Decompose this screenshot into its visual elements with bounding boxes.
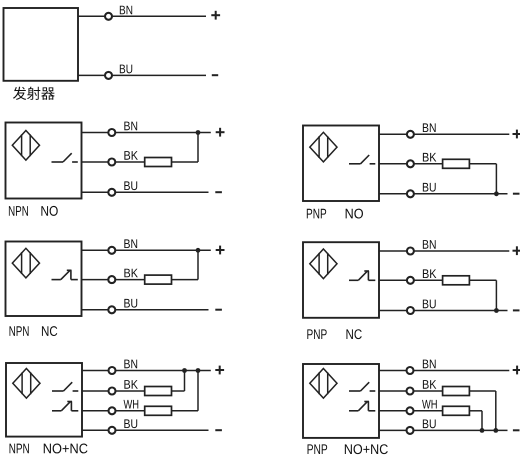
NC contact NPN NO+NC WH [52, 401, 78, 410]
plus terminal (emitter) [211, 11, 220, 20]
label NO (PNP NO) [346, 209, 363, 219]
label NO+NC (PNP NO+NC) [345, 444, 388, 454]
NC contact PNP NC BK [349, 271, 375, 280]
NO contact NPN NO+NC BK [52, 382, 78, 391]
terminal BK (PNP NO) [407, 160, 414, 167]
terminal WH (PNP NO+NC) [407, 407, 414, 414]
wire BK (NPN NC) load to junction [172, 279, 199, 281]
sensor box PNP NO+NC [303, 364, 379, 438]
wire WH (PNP NO+NC) load to junction [469, 410, 482, 412]
terminal BN (PNP NO) [407, 131, 414, 138]
minus terminal (NPN NC) [215, 309, 222, 311]
wire junction-vertical WH-BU (PNP NO+NC) [481, 411, 483, 431]
wire junction-vertical BN-BK (NPN NO+NC) [184, 371, 186, 392]
wire BN (PNP NO) [379, 133, 509, 135]
label NPN (NPN NO) [9, 206, 28, 216]
label BN (NPN NO+NC) [124, 360, 137, 369]
wire BK (PNP NO+NC) load to junction [469, 390, 495, 392]
wire BK (NPN NO+NC) to load [82, 390, 145, 392]
terminal BN (NPN NO) [108, 129, 115, 136]
label NPN (NPN NC) [10, 326, 29, 336]
plus terminal (PNP NO) [513, 130, 520, 139]
wire WH (PNP NO+NC) to load [379, 410, 443, 412]
label BK (PNP NO) [423, 153, 436, 162]
label 发射器 (emitter) [13, 87, 55, 100]
load resistor (PNP NO+NC WH) [443, 406, 470, 415]
wire BK (PNP NO) load to junction [469, 163, 496, 165]
wire BN (emitter) to + [78, 15, 206, 17]
terminal BK (PNP NC) [407, 277, 414, 284]
label NC (PNP NC) [346, 329, 361, 339]
load resistor (NPN NO BK) [145, 158, 172, 167]
terminal BK (NPN NO) [108, 159, 115, 166]
wire BN (NPN NO) [82, 132, 211, 134]
wire BN (PNP NC) [379, 250, 509, 252]
load resistor (NPN NO+NC BK) [145, 387, 172, 396]
load resistor (PNP NC BK) [443, 276, 470, 285]
plus terminal (PNP NO+NC) [513, 366, 520, 375]
minus terminal (NPN NO) [215, 191, 222, 193]
wire junction-vertical BN-WH (NPN NO+NC) [197, 371, 199, 411]
label BU (emitter) [120, 65, 132, 74]
label BU (PNP NO+NC) [423, 419, 436, 428]
wire WH (NPN NO+NC) load to junction [172, 410, 199, 412]
label WH (PNP NO+NC) [422, 400, 437, 409]
label BN (NPN NC) [124, 239, 137, 248]
minus terminal (NPN NO+NC) [215, 429, 222, 431]
terminal BK (NPN NC) [108, 276, 115, 283]
label BN (PNP NC) [423, 240, 436, 249]
wire BU (NPN NO) [82, 191, 209, 193]
label BK (NPN NO+NC) [124, 380, 137, 389]
sensor box NPN NC [6, 242, 82, 317]
NC contact NPN NC BK [52, 270, 78, 279]
NO contact NPN NO BK [52, 153, 78, 162]
junction node (NPN NO+NC) [182, 368, 187, 373]
junction node (PNP NC) [494, 308, 499, 313]
proximity-sensor symbol PNP NC [310, 249, 337, 279]
label PNP (PNP NO) [307, 209, 326, 219]
minus terminal (emitter) [212, 74, 218, 76]
label BN (PNP NO+NC) [423, 360, 436, 369]
label WH (NPN NO+NC) [124, 400, 139, 409]
terminal BU (NPN NC) [108, 306, 115, 313]
minus terminal (PNP NC) [513, 309, 520, 311]
wire BU (NPN NO+NC) [82, 429, 209, 431]
junction node (NPN NC) [196, 248, 201, 253]
wire BK (NPN NO) load to junction [172, 161, 199, 163]
terminal BU (NPN NO+NC) [109, 427, 116, 434]
wire BN (PNP NO+NC) [379, 370, 509, 372]
label NO+NC (NPN NO+NC) [44, 444, 88, 454]
label NPN (NPN NO+NC) [10, 444, 29, 454]
wire BK (PNP NO+NC) to load [379, 390, 443, 392]
terminal WH (NPN NO+NC) [109, 407, 116, 414]
emitter box 发射器 [4, 8, 79, 81]
plus terminal (NPN NO+NC) [215, 366, 224, 375]
terminal BU (PNP NO+NC) [407, 427, 414, 434]
NC contact PNP NO+NC WH [349, 401, 375, 410]
wire BN (NPN NC) [82, 249, 211, 251]
wire BU (PNP NC) [379, 310, 508, 312]
proximity-sensor symbol NPN NC [12, 248, 39, 278]
terminal BN (emitter) [105, 13, 112, 20]
terminal BN (PNP NO+NC) [407, 367, 414, 374]
label PNP (PNP NC) [307, 329, 326, 339]
label PNP (PNP NO+NC) [308, 444, 328, 454]
sensor box NPN NO [6, 123, 82, 199]
minus terminal (PNP NO+NC) [513, 429, 520, 431]
junction node (PNP NO+NC) [480, 428, 485, 433]
label BK (NPN NC) [124, 269, 137, 278]
wire BK (NPN NC) to load [82, 279, 145, 281]
terminal BN (NPN NO+NC) [109, 367, 116, 374]
minus terminal (PNP NO) [513, 193, 520, 195]
label BU (NPN NO+NC) [124, 419, 137, 428]
terminal BK (PNP NO+NC) [407, 388, 414, 395]
label BU (NPN NO) [124, 181, 137, 190]
terminal BU (emitter) [105, 72, 112, 79]
proximity-sensor symbol PNP NO+NC [310, 369, 337, 399]
wire BK (NPN NO+NC) load to junction [172, 390, 185, 392]
wire BK (PNP NC) load to junction [469, 279, 496, 281]
plus terminal (PNP NC) [513, 246, 520, 255]
terminal BN (NPN NC) [108, 247, 115, 254]
wire BU (NPN NC) [82, 309, 209, 311]
wire WH (NPN NO+NC) to load [82, 410, 145, 412]
junction node (PNP NO+NC) [493, 428, 498, 433]
NO contact PNP NO+NC BK [349, 382, 375, 391]
wire junction-vertical BN-BK (NPN NO) [197, 133, 199, 163]
wire BN (NPN NO+NC) [82, 370, 211, 372]
plus terminal (NPN NC) [216, 246, 225, 255]
terminal BU (PNP NO) [407, 190, 414, 197]
proximity-sensor symbol NPN NO+NC [13, 369, 40, 399]
label NC (NPN NC) [42, 326, 57, 336]
label BU (NPN NC) [124, 299, 137, 308]
terminal BU (PNP NC) [407, 307, 414, 314]
junction node (NPN NO) [196, 130, 201, 135]
wire BK (PNP NC) to load [379, 279, 443, 281]
load resistor (NPN NC BK) [145, 275, 172, 284]
wire BU (emitter) to - [78, 74, 206, 76]
terminal BK (NPN NO+NC) [109, 388, 116, 395]
wire BK (PNP NO) to load [379, 163, 443, 165]
label BK (PNP NC) [423, 269, 436, 278]
terminal BN (PNP NC) [407, 248, 414, 255]
label BU (PNP NO) [423, 183, 436, 192]
sensor box PNP NC [303, 242, 379, 318]
label BN (PNP NO) [423, 123, 436, 132]
label BN (NPN NO) [124, 122, 137, 131]
label NO (NPN NO) [41, 206, 57, 216]
proximity-sensor symbol PNP NO [310, 132, 337, 162]
wire junction-vertical BN-BK (NPN NC) [197, 250, 199, 279]
wire BU (PNP NO+NC) [379, 429, 508, 431]
sensor box PNP NO [303, 126, 379, 202]
wire junction-vertical BK-BU (PNP NO) [495, 164, 497, 194]
load resistor (PNP NO+NC BK) [443, 387, 470, 396]
label BK (PNP NO+NC) [423, 380, 436, 389]
label BK (NPN NO) [124, 151, 137, 160]
wire junction-vertical BK-BU (PNP NO+NC) [495, 391, 497, 430]
sensor box NPN NO+NC [6, 363, 82, 437]
NO contact PNP NO BK [349, 155, 375, 164]
terminal BU (NPN NO) [108, 189, 115, 196]
wire BU (PNP NO) [379, 193, 508, 195]
plus terminal (NPN NO) [216, 128, 225, 137]
junction node (PNP NO) [494, 191, 499, 196]
junction node (NPN NO+NC) [196, 368, 201, 373]
proximity-sensor symbol NPN NO [12, 131, 39, 161]
label BN (emitter) [120, 6, 132, 15]
wire BK (NPN NO) to load [82, 161, 145, 163]
load resistor (NPN NO+NC WH) [145, 406, 172, 415]
label BU (PNP NC) [423, 300, 436, 309]
load resistor (PNP NO BK) [443, 159, 470, 168]
wire junction-vertical BK-BU (PNP NC) [495, 280, 497, 310]
